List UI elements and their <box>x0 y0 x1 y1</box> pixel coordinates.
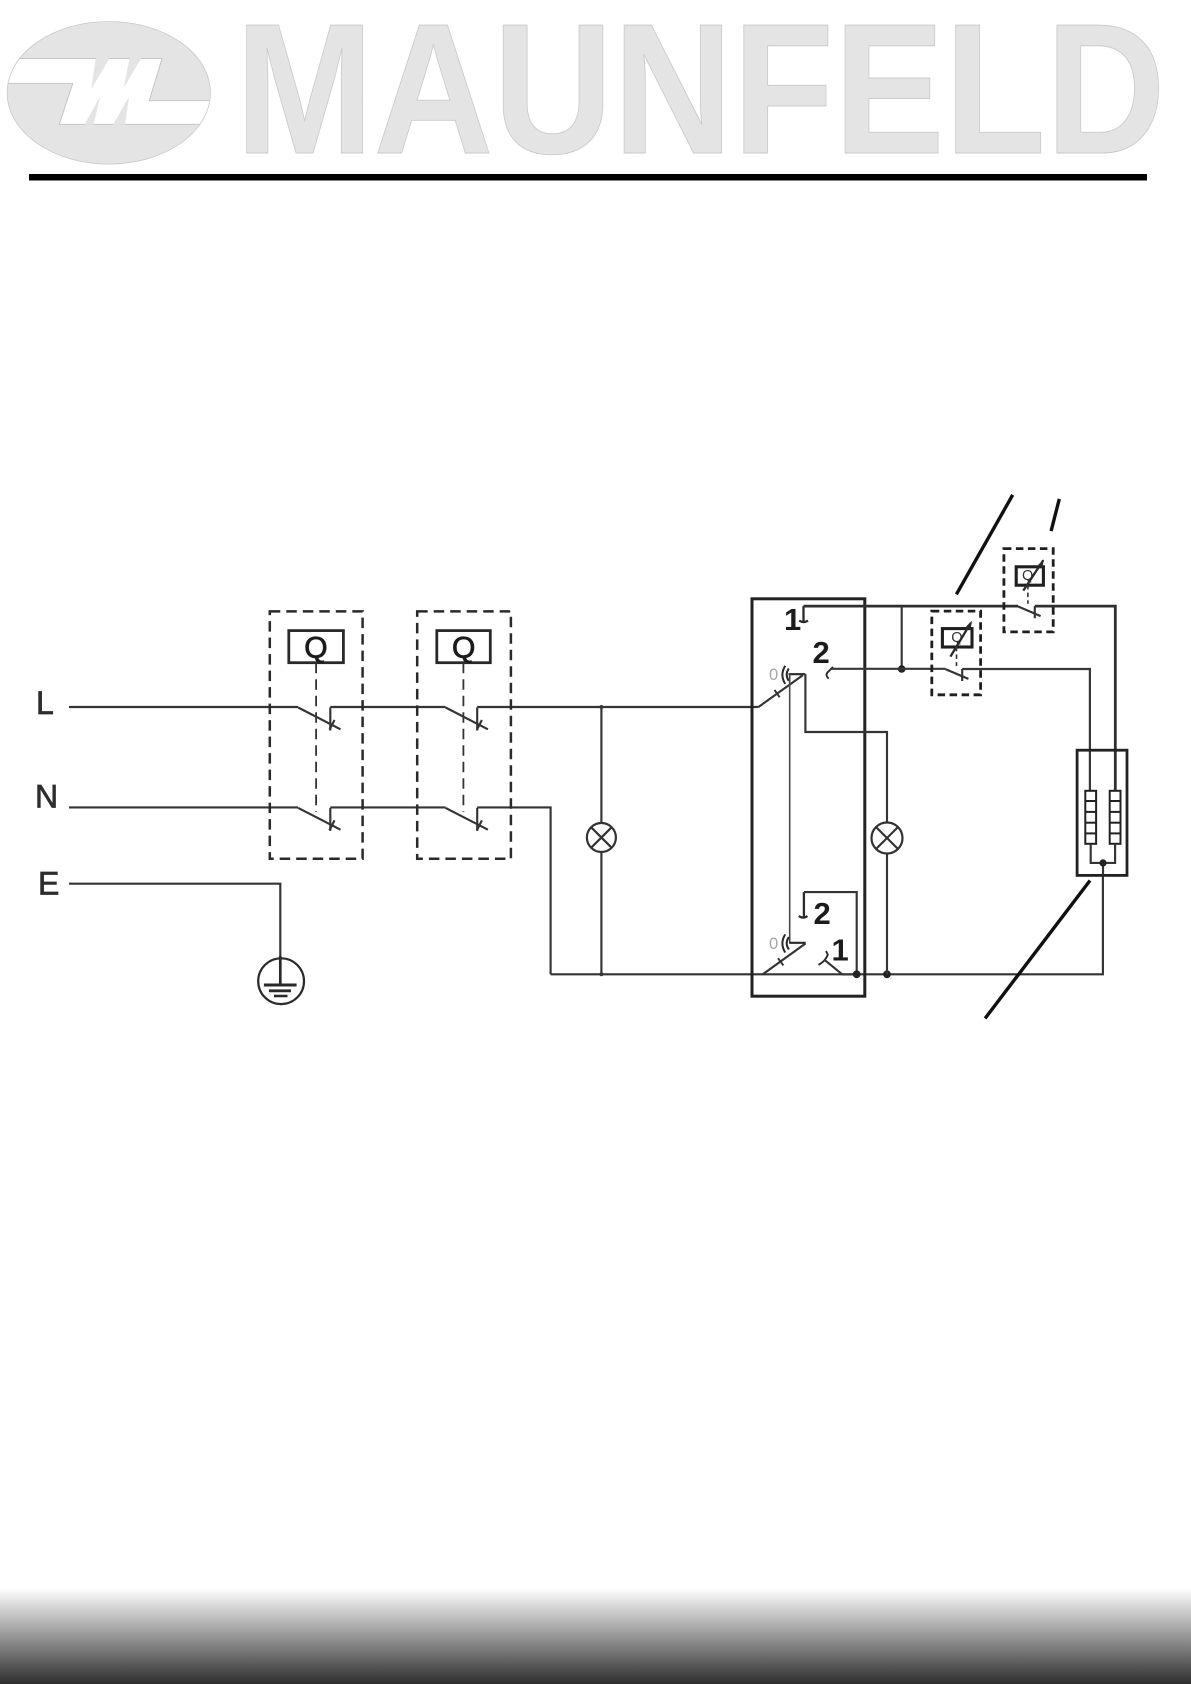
thermostat B dashed box <box>1004 549 1053 632</box>
breaker Q2 rect <box>437 631 491 663</box>
header rule <box>29 174 1147 181</box>
heater bottom joins <box>1091 844 1115 863</box>
switch S1 blade tick <box>775 690 780 697</box>
breaker Q1 dashed box <box>270 611 363 858</box>
switch Q1-L blade <box>298 707 340 730</box>
node dot heater <box>1099 859 1106 866</box>
wire L segments <box>69 706 298 708</box>
thermostat A rect <box>942 629 972 647</box>
footer gradient <box>0 1588 1191 1684</box>
svg-text:0: 0 <box>769 666 778 684</box>
wire N segments <box>69 806 298 808</box>
switch Q2-L blade <box>446 707 488 730</box>
contact 1 beak <box>819 951 828 965</box>
svg-text:2: 2 <box>813 635 830 670</box>
node dot top of lamp HL1 <box>599 705 603 709</box>
wire link top to wire2 <box>901 606 903 669</box>
svg-text:L: L <box>36 685 54 721</box>
switch S2 arcs <box>782 934 788 952</box>
switch S2 blade <box>762 944 805 975</box>
heater element right <box>1110 791 1121 844</box>
breaker Q2 dashed box <box>417 611 511 858</box>
switch Q1-N blade <box>298 808 340 831</box>
wire 2 run <box>832 668 946 670</box>
wire N to bottom corner <box>477 807 550 974</box>
wire terminal 2 bottom loop <box>804 892 857 974</box>
svg-text:1: 1 <box>832 932 849 967</box>
breaker Q2 dashed link <box>462 663 464 812</box>
switch S2 bar <box>789 942 806 944</box>
leader line heater <box>985 881 1090 1019</box>
svg-text:N: N <box>35 778 58 814</box>
node dot junction wire2 <box>898 665 906 673</box>
wire contact1 to rail <box>825 960 857 975</box>
breaker Q1 rect <box>289 631 344 663</box>
lamp HL1 <box>587 823 616 852</box>
logo mark ellipse <box>2 22 214 165</box>
contact 2 beak <box>827 667 833 679</box>
switch S1 arcs <box>782 666 788 684</box>
lamp HL2 lower wire <box>886 854 888 975</box>
node dot rail A <box>853 970 861 978</box>
leader line short <box>1051 499 1059 531</box>
svg-text:E: E <box>38 865 59 901</box>
terminal 1 top <box>799 606 808 622</box>
thermostat A dashed link <box>956 647 958 666</box>
switch Q2-N blade <box>446 808 488 831</box>
thermostat B rect <box>1016 567 1043 585</box>
wire 2 run after thermostat A <box>962 669 1090 791</box>
wire bar1 to lamp HL2 <box>805 674 887 822</box>
svg-text:0: 0 <box>769 935 778 953</box>
lamp HL1 wire <box>600 707 602 974</box>
terminal 2 bottom <box>799 892 808 918</box>
heater box <box>1077 750 1127 875</box>
breaker Q1 dashed link <box>315 663 317 812</box>
thermostat B arrow <box>1023 560 1043 590</box>
svg-text:MAUNFELD: MAUNFELD <box>236 0 1166 193</box>
wire E <box>69 884 280 959</box>
switch S1 blade <box>759 675 803 707</box>
selector switch box <box>752 599 865 996</box>
svg-text:Q: Q <box>452 632 475 665</box>
thermostat A arrow <box>950 623 971 657</box>
lamp HL2 <box>872 823 903 854</box>
heater element left <box>1085 791 1096 844</box>
switch S2 blade tick <box>778 958 783 965</box>
svg-text:2: 2 <box>814 896 831 931</box>
svg-text:1: 1 <box>784 602 801 637</box>
leader line long <box>956 495 1012 594</box>
node dot bottom of lamp HL1 <box>599 972 603 976</box>
thermostat B dashed link <box>1027 585 1029 604</box>
ground symbol <box>258 956 304 1004</box>
wire terminal1 top run <box>804 605 1019 608</box>
switch S1 bar <box>789 673 806 675</box>
wire bottom rail <box>551 875 1103 974</box>
mechanical link <box>789 674 791 943</box>
thermostat A dashed box <box>932 611 981 695</box>
svg-text:Q: Q <box>304 632 327 665</box>
thermostat A switch blade <box>946 669 969 681</box>
thermostat B switch blade <box>1018 606 1041 618</box>
node dot rail B <box>883 970 891 978</box>
wire top run after thermostat B <box>1035 606 1116 791</box>
